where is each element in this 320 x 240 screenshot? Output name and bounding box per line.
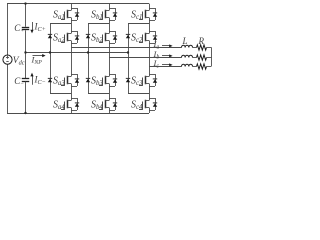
wire: leg b clamp branch vertical bbox=[88, 23, 90, 93]
arrow Ib (phase current) bbox=[162, 54, 173, 57]
wire: leg b main from top rail through switches to bottom rail bbox=[109, 4, 111, 8]
svg-text:R: R bbox=[198, 36, 205, 46]
wire: capacitor branch middle bbox=[25, 30, 27, 78]
diode Dc2 lower clamp bbox=[126, 78, 130, 82]
arrow INP (neutral point current) bbox=[33, 54, 46, 57]
transistor Sc4 (switch with body diode) bbox=[139, 98, 157, 111]
wire: phase a output line bbox=[71, 47, 182, 49]
capacitor C- bbox=[22, 79, 29, 82]
transistor Sc3 (switch with body diode) bbox=[139, 74, 157, 87]
wire: leg b clamp top link bbox=[88, 23, 109, 25]
wire: leg b clamp bottom link bbox=[88, 93, 109, 95]
wire: negative DC bottom rail bbox=[7, 113, 149, 115]
wire: phase c L-R link bbox=[193, 66, 197, 68]
wire: star point vertical bbox=[211, 48, 213, 67]
transistor Sa3 (switch with body diode) bbox=[61, 74, 79, 87]
wire: phase c output line bbox=[149, 66, 182, 68]
transistor Sb2 (switch with body diode) bbox=[99, 31, 117, 44]
wire: phase a L-R link bbox=[193, 47, 197, 49]
wire: leg a clamp bottom link bbox=[50, 93, 71, 95]
arrow Ic (phase current) bbox=[162, 63, 173, 66]
node: bottom rail / capacitor junction bbox=[24, 112, 26, 114]
node: top rail / capacitor junction bbox=[24, 2, 26, 4]
transistor Sa2 (switch with body diode) bbox=[61, 31, 79, 44]
inductor L phase a bbox=[182, 45, 193, 47]
voltage source Vdc bbox=[3, 4, 12, 113]
wire: capacitor branch upper bbox=[25, 4, 27, 27]
wire: leg a clamp top link bbox=[50, 23, 71, 25]
node: leg b clamp / neutral junction bbox=[87, 51, 89, 53]
wire: leg a clamp branch vertical bbox=[50, 23, 52, 93]
node: leg c clamp / neutral junction bbox=[127, 51, 129, 53]
resistor R phase b bbox=[197, 55, 207, 60]
wire: capacitor branch lower bbox=[25, 82, 27, 113]
transistor Sa4 (switch with body diode) bbox=[61, 98, 79, 111]
wire: leg a main from top rail through switches to bottom rail bbox=[71, 4, 73, 8]
diode Db2 lower clamp bbox=[86, 78, 90, 82]
inductor L phase c bbox=[182, 64, 193, 66]
wire: leg c clamp branch vertical bbox=[128, 23, 130, 93]
transistor Sb3 (switch with body diode) bbox=[99, 74, 117, 87]
wire: phase b output line bbox=[109, 57, 182, 59]
arrow IC+ (current into C+) bbox=[30, 22, 33, 33]
transistor Sc2 (switch with body diode) bbox=[139, 31, 157, 44]
arrow Ia (phase current) bbox=[162, 44, 173, 47]
capacitor C+ bbox=[22, 28, 29, 30]
wire: phase c to star point bbox=[207, 66, 212, 68]
diode Dc1 upper clamp bbox=[126, 34, 130, 38]
transistor Sb4 (switch with body diode) bbox=[99, 98, 117, 111]
wire: phase b to star point bbox=[207, 57, 212, 59]
svg-text:L: L bbox=[182, 36, 188, 46]
wire: phase a to star point bbox=[207, 47, 212, 49]
transistor Sb1 (switch with body diode) bbox=[99, 8, 117, 21]
wire: leg c main from top rail through switches to bottom rail bbox=[149, 4, 151, 8]
resistor R phase c bbox=[197, 64, 207, 69]
transistor Sc1 (switch with body diode) bbox=[139, 8, 157, 21]
wire: phase b L-R link bbox=[193, 57, 197, 59]
wire: positive DC top rail bbox=[7, 3, 149, 5]
wire: neutral point line bbox=[26, 52, 129, 54]
node: leg a clamp / neutral junction bbox=[49, 51, 51, 53]
node: neutral at capacitor midpoint bbox=[24, 51, 26, 53]
resistor R phase a bbox=[197, 45, 207, 50]
wire: leg c clamp top link bbox=[128, 23, 149, 25]
diode Da1 upper clamp bbox=[48, 34, 52, 38]
inductor L phase b bbox=[182, 55, 193, 57]
wire: leg c clamp bottom link bbox=[128, 93, 149, 95]
transistor Sa1 (switch with body diode) bbox=[61, 8, 79, 21]
diode Da2 lower clamp bbox=[48, 78, 52, 82]
diode Db1 upper clamp bbox=[86, 34, 90, 38]
arrow IC- (current out of C-) bbox=[30, 73, 33, 85]
